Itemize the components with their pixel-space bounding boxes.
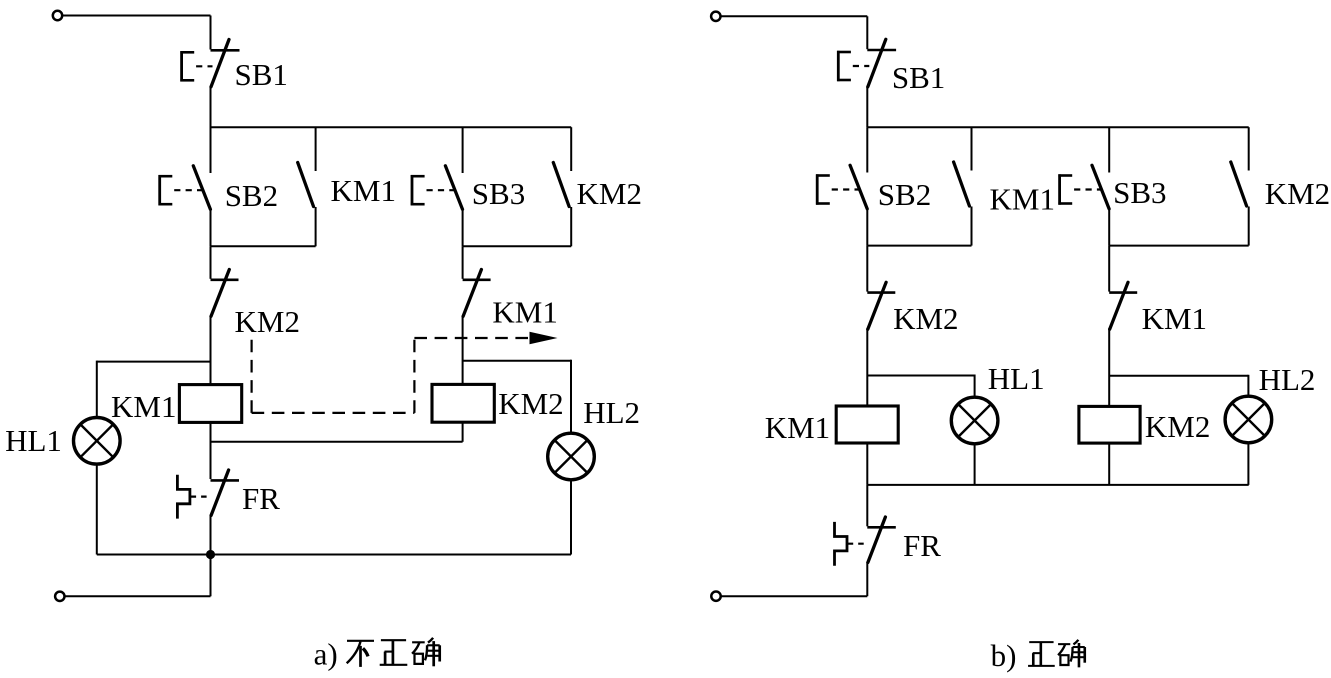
terminal: top supply terminal (diagram b) <box>711 12 720 21</box>
svg-text:HL2: HL2 <box>583 395 640 430</box>
wire: KM1 coil to bottom join (diagram b) <box>866 443 868 485</box>
coil KM2 (diagram b) <box>1079 406 1140 443</box>
svg-text:FR: FR <box>242 481 280 516</box>
wire: SB1 to bus (diagram b) <box>866 87 868 128</box>
wire: HL1 branch drop (diagram a) <box>96 361 98 418</box>
svg-text:KM2: KM2 <box>498 386 563 421</box>
wire: right rung down to KM1 interlock (diagram a) <box>462 246 464 278</box>
wire: HL2 to bottom join (diagram b) <box>1247 443 1249 485</box>
wire: HL1 branch drop (diagram b) <box>974 375 976 398</box>
svg-text:SB1: SB1 <box>892 60 945 95</box>
wire: FR to bottom feeder (diagram b) <box>866 562 868 596</box>
svg-text:SB3: SB3 <box>1113 175 1166 210</box>
wire: SB2/KM1 parallel join (diagram a) <box>211 245 316 247</box>
svg-text:KM1: KM1 <box>765 410 830 445</box>
pushbutton SB3 (NO start, diagram a) <box>445 127 462 246</box>
svg-text:KM1: KM1 <box>1142 301 1207 336</box>
actuator of SB3 (diagram b) <box>1058 174 1101 204</box>
wire: drop from feeder to SB1 (diagram a) <box>210 16 212 50</box>
actuator of SB1 (diagram b) <box>837 51 869 81</box>
wire: bottom feeder horizontal (diagram b) <box>721 595 867 597</box>
thermal relay FR (NC contact, diagram a) <box>211 470 240 515</box>
actuator of SB3 (diagram a) <box>411 175 455 205</box>
wire: FR to bottom terminal drop (diagram a) <box>210 515 212 596</box>
wire: HL2 branch drop (diagram b) <box>1247 375 1249 396</box>
svg-text:KM2: KM2 <box>893 301 958 336</box>
terminal: top supply terminal (diagram a) <box>53 11 62 20</box>
svg-text:KM2: KM2 <box>235 304 300 339</box>
actuator of FR (diagram b) <box>835 522 866 566</box>
lamp HL1 (diagram b) <box>951 397 998 444</box>
wire: HL1 to bottom join (diagram b) <box>974 444 976 485</box>
wire: branch to HL2 (diagram a) <box>463 360 571 362</box>
wire: top feeder horizontal (diagram b) <box>721 15 868 17</box>
wire: top bus of rung pair (diagram b) <box>867 126 1248 128</box>
svg-text:KM2: KM2 <box>1265 176 1330 211</box>
lamp HL1 (diagram a) <box>74 418 121 465</box>
svg-text:b): b) <box>991 638 1017 673</box>
wire: bottom feeder horizontal (diagram a) <box>65 595 211 597</box>
contact KM2 (NC interlock, diagram b) <box>867 282 895 329</box>
contact KM1 (NC interlock, diagram a) <box>463 270 491 317</box>
svg-text:KM1: KM1 <box>331 173 396 208</box>
svg-text:SB1: SB1 <box>235 57 288 92</box>
svg-text:KM1: KM1 <box>111 389 176 424</box>
contact KM1 (NO self-holding, diagram a) <box>298 127 316 246</box>
wire: HL2 to bottom rail (diagram a) <box>570 480 572 555</box>
svg-text:KM1: KM1 <box>990 182 1055 217</box>
actuator of SB1 (diagram a) <box>180 51 212 81</box>
svg-text:SB2: SB2 <box>225 178 278 213</box>
svg-text:a): a) <box>314 637 338 672</box>
contact KM2 (NO self-holding, diagram a) <box>553 127 571 246</box>
wire: top feeder horizontal (diagram a) <box>63 15 211 17</box>
wire: branch to HL1 (diagram a) <box>97 361 211 363</box>
wire: left rung down to KM2 interlock (diagram b) <box>866 246 868 292</box>
contact KM2 (NC interlock, diagram a) <box>211 270 239 317</box>
wire: top bus of rung pair (diagram a) <box>211 126 572 128</box>
svg-text:SB2: SB2 <box>878 177 931 212</box>
wire: drop from feeder to SB1 (diagram b) <box>866 16 868 49</box>
actuator of FR (diagram a) <box>177 475 209 519</box>
pushbutton SB2 (NO start, diagram a) <box>193 127 210 246</box>
wire: coil bottoms join (diagram a) <box>211 441 463 443</box>
wire: join rail down to FR (diagram b) <box>866 485 868 526</box>
wire: branch to HL2 (diagram b) <box>1109 375 1248 377</box>
svg-text:KM1: KM1 <box>492 295 557 330</box>
terminal: bottom supply terminal (diagram b) <box>711 592 720 601</box>
wire: KM2 interlock to KM1 coil (diagram a) <box>210 316 212 385</box>
wire: bottom join rail (diagram b) <box>867 484 1248 486</box>
caption a) incorrect <box>314 637 440 672</box>
pushbutton SB1 (NC stop button, diagram b) <box>867 39 896 87</box>
wire: KM1 coil to FR (diagram a) <box>210 422 212 479</box>
contact KM1 (NC interlock, diagram b) <box>1109 282 1137 329</box>
lamp HL2 (diagram b) <box>1225 396 1272 443</box>
node: junction on bottom rail (diagram a) <box>206 550 215 559</box>
wire: HL2 branch drop (diagram a) <box>570 360 572 434</box>
svg-text:HL2: HL2 <box>1259 362 1316 397</box>
svg-text:HL1: HL1 <box>988 361 1045 396</box>
wire: SB3/KM2 parallel join (diagram b) <box>1109 245 1249 247</box>
wire: left rung down to KM2 interlock (diagram a) <box>210 246 212 278</box>
svg-text:KM2: KM2 <box>577 176 642 211</box>
wire: KM2 interlock to KM1 coil (diagram b) <box>866 328 868 406</box>
contact KM1 (NO self-holding, diagram b) <box>954 127 972 245</box>
pushbutton SB1 (NC stop button, diagram a) <box>211 40 240 87</box>
wire: dashed interlock path from KM2 (diagram a) <box>252 332 558 413</box>
terminal: bottom supply terminal (diagram a) <box>55 592 64 601</box>
actuator of SB2 (diagram a) <box>159 175 203 205</box>
lamp HL2 (diagram a) <box>548 433 595 480</box>
svg-text:SB3: SB3 <box>472 176 525 211</box>
wire: KM1 interlock to KM2 coil (diagram b) <box>1108 328 1110 406</box>
wire: SB2/KM1 parallel join (diagram b) <box>867 245 971 247</box>
coil KM2 (diagram a) <box>432 384 494 422</box>
svg-text:FR: FR <box>903 528 941 563</box>
wire: SB1 to bus (diagram a) <box>210 87 212 129</box>
coil KM1 (diagram a) <box>179 385 241 423</box>
wire: KM1 interlock to KM2 coil (diagram a) <box>462 316 464 385</box>
pushbutton SB2 (NO start, diagram b) <box>850 127 867 245</box>
wire: bottom rail (diagram a) <box>97 554 571 556</box>
wire: HL1 to bottom rail (diagram a) <box>96 464 98 554</box>
contact KM2 (NO self-holding, diagram b) <box>1231 127 1249 245</box>
actuator of SB2 (diagram b) <box>816 174 859 204</box>
wire: SB3/KM2 parallel join (diagram a) <box>463 245 572 247</box>
wire: branch to HL1 (diagram b) <box>867 375 974 377</box>
wire: KM2 coil to bottom join (diagram b) <box>1108 443 1110 485</box>
pushbutton SB3 (NO start, diagram b) <box>1092 127 1109 245</box>
wire: right rung down to KM1 interlock (diagram b) <box>1108 246 1110 292</box>
thermal relay FR (NC contact, diagram b) <box>867 517 896 562</box>
coil KM1 (diagram b) <box>836 406 898 443</box>
wire: KM2 coil bottom drop (diagram a) <box>462 422 464 442</box>
svg-text:HL1: HL1 <box>5 423 62 458</box>
caption b) correct <box>991 638 1085 673</box>
svg-text:KM2: KM2 <box>1145 409 1210 444</box>
